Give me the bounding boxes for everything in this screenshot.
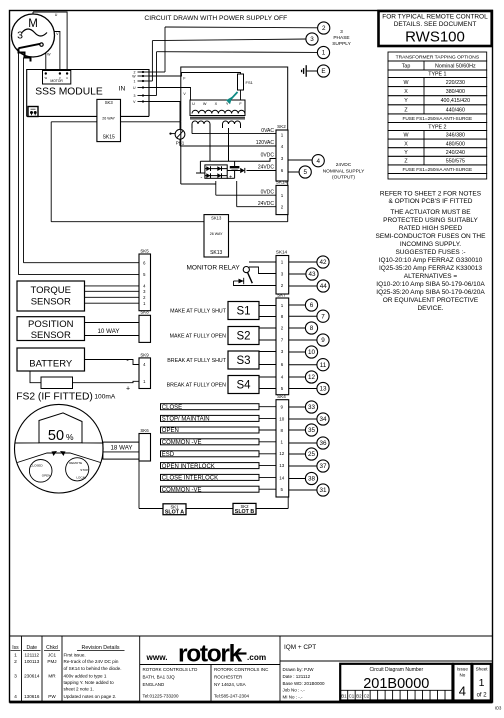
svg-text:BATTERY: BATTERY: [29, 359, 73, 370]
svg-text:Tel:585-247-2304: Tel:585-247-2304: [214, 694, 250, 699]
svg-text:SK14: SK14: [276, 250, 288, 255]
svg-text:SK15: SK15: [103, 135, 115, 141]
svg-text:35: 35: [308, 427, 316, 434]
svg-text:F: F: [183, 77, 185, 81]
svg-text:REFER TO SHEET 2 FOR NOTES: REFER TO SHEET 2 FOR NOTES: [380, 190, 482, 197]
svg-text:SENSOR: SENSOR: [31, 297, 71, 308]
svg-text:X: X: [404, 89, 408, 95]
svg-text:IN: IN: [119, 85, 126, 92]
svg-text:24VDC: 24VDC: [336, 162, 352, 168]
svg-text:sheet 2 note 1.: sheet 2 note 1.: [64, 687, 94, 692]
svg-text:TRANSFORMER TAPPING OPTIONS: TRANSFORMER TAPPING OPTIONS: [396, 54, 480, 60]
svg-text:SEMI-CONDUCTOR FUSES ON THE: SEMI-CONDUCTOR FUSES ON THE: [376, 233, 487, 240]
svg-text:4: 4: [459, 684, 466, 699]
svg-text:FS2 (IF FITTED): FS2 (IF FITTED): [16, 391, 93, 402]
svg-text:100113: 100113: [24, 659, 39, 664]
svg-text:(OUTPUT): (OUTPUT): [332, 175, 355, 181]
svg-text:FS1: FS1: [246, 80, 254, 85]
svg-text:IQ25-35:20 Amp FERRAZ K330013: IQ25-35:20 Amp FERRAZ K330013: [379, 265, 482, 272]
svg-text:Y: Y: [404, 98, 408, 104]
svg-text:+: +: [126, 386, 130, 393]
svg-text:M: M: [28, 18, 38, 30]
svg-text:400v added to type 1: 400v added to type 1: [64, 674, 107, 679]
svg-text:BREAK AT FULLY SHUT: BREAK AT FULLY SHUT: [167, 358, 227, 364]
svg-text:Tap: Tap: [402, 63, 411, 69]
svg-text:PHASE: PHASE: [333, 35, 349, 41]
svg-text:34: 34: [319, 416, 327, 423]
svg-text:S4: S4: [236, 380, 251, 392]
svg-text:REMOTE: REMOTE: [69, 461, 82, 465]
svg-text:C2: C2: [364, 693, 370, 698]
svg-text:SUGGESTED FUSES :-: SUGGESTED FUSES :-: [395, 249, 465, 256]
svg-text:FOR TYPICAL REMOTE CONTROL: FOR TYPICAL REMOTE CONTROL: [382, 14, 488, 21]
svg-text:SK9: SK9: [140, 352, 149, 357]
svg-text:X: X: [215, 102, 218, 106]
svg-text:X: X: [404, 141, 408, 147]
svg-text:W: W: [203, 102, 207, 106]
svg-text:FUSE FS1=250mA ANTI-SURGE: FUSE FS1=250mA ANTI-SURGE: [403, 116, 473, 121]
svg-text:346/380: 346/380: [446, 133, 465, 139]
svg-text:SK1: SK1: [170, 504, 179, 509]
svg-text:550/575: 550/575: [446, 159, 465, 165]
svg-text:E: E: [321, 68, 325, 75]
svg-text:SK5: SK5: [140, 248, 149, 253]
svg-text:7: 7: [321, 313, 325, 320]
svg-text:SLOT A: SLOT A: [165, 510, 184, 516]
svg-text:SK2: SK2: [240, 504, 249, 509]
svg-text:CLOSED: CLOSED: [30, 464, 43, 468]
svg-text:2: 2: [322, 25, 326, 32]
svg-text:+: +: [229, 175, 232, 181]
svg-text:U: U: [66, 76, 68, 80]
svg-text:Base WD: 201B0000: Base WD: 201B0000: [283, 681, 326, 686]
svg-text:TYPE 1: TYPE 1: [428, 72, 446, 78]
svg-text:220/230: 220/230: [446, 80, 465, 86]
svg-text:%: %: [66, 432, 74, 442]
svg-text:Date: Date: [27, 645, 38, 651]
svg-text:3: 3: [310, 36, 314, 43]
svg-text:Circuit Diagram Number: Circuit Diagram Number: [369, 667, 423, 673]
svg-text:120VAC: 120VAC: [256, 140, 275, 146]
svg-text:10: 10: [279, 417, 285, 422]
svg-text:25: 25: [308, 451, 316, 458]
svg-text:SK6: SK6: [140, 428, 149, 433]
svg-text:RWS100: RWS100: [405, 29, 465, 46]
svg-text:SUPPLY: SUPPLY: [332, 41, 351, 47]
svg-text:MR: MR: [48, 674, 56, 679]
svg-text:MAKE AT FULLY SHUT: MAKE AT FULLY SHUT: [170, 309, 227, 315]
svg-text:COMMON -VE: COMMON -VE: [162, 440, 202, 446]
svg-text:FUSE FS1=250mA ANTI-SURGE: FUSE FS1=250mA ANTI-SURGE: [403, 167, 473, 172]
svg-text:SK8: SK8: [140, 310, 149, 315]
svg-text:33: 33: [308, 404, 316, 411]
svg-text:Chkd: Chkd: [46, 645, 58, 651]
svg-text:SK13: SK13: [210, 250, 222, 256]
svg-text:380/400: 380/400: [446, 89, 465, 95]
svg-text:TYPE 2: TYPE 2: [428, 124, 446, 130]
svg-text:W: W: [404, 133, 409, 139]
svg-text:IQ25-35:20 Amp SIBA 50-179-06/: IQ25-35:20 Amp SIBA 50-179-06/20A: [376, 289, 485, 296]
svg-text:W: W: [404, 80, 409, 86]
svg-text:Job No : -.-: Job No : -.-: [283, 688, 306, 693]
svg-text:TORQUE: TORQUE: [31, 285, 71, 296]
svg-text:SK13: SK13: [211, 215, 222, 220]
svg-text:13: 13: [319, 386, 327, 393]
svg-text:6: 6: [310, 302, 314, 309]
svg-text:0VDC: 0VDC: [261, 153, 275, 159]
svg-text:480/500: 480/500: [446, 141, 465, 147]
svg-text:C1: C1: [349, 693, 355, 698]
svg-text:24VDC: 24VDC: [258, 201, 275, 207]
svg-text:43: 43: [308, 271, 316, 278]
svg-text:OR EQUIVALENT PROTECTIVE: OR EQUIVALENT PROTECTIVE: [383, 297, 479, 304]
svg-text:B2: B2: [356, 693, 362, 698]
svg-text:1: 1: [14, 653, 17, 659]
svg-text:MOTOR: MOTOR: [50, 79, 63, 83]
svg-text:U: U: [55, 13, 58, 17]
svg-text:CIRCUIT DRAWN WITH POWER SUPPL: CIRCUIT DRAWN WITH POWER SUPPLY OFF: [144, 15, 287, 22]
svg-text:44: 44: [320, 283, 328, 290]
svg-text:31: 31: [319, 487, 327, 494]
svg-text:First issue.: First issue.: [64, 653, 86, 658]
svg-text:INCOMING SUPPLY.: INCOMING SUPPLY.: [400, 241, 461, 248]
svg-text:50: 50: [48, 428, 64, 444]
svg-text:2: 2: [14, 659, 17, 665]
svg-text:12: 12: [308, 374, 316, 381]
svg-text:4: 4: [14, 694, 17, 700]
svg-text:SK14: SK14: [276, 180, 288, 185]
svg-text:1: 1: [134, 80, 136, 84]
svg-text:SK2: SK2: [277, 124, 286, 129]
svg-text:SK4: SK4: [277, 394, 286, 399]
svg-text:Sheet: Sheet: [476, 667, 489, 672]
svg-text:1: 1: [479, 677, 485, 689]
svg-text:NOMINAL SUPPLY: NOMINAL SUPPLY: [323, 168, 365, 174]
svg-text:Issue: Issue: [457, 667, 468, 672]
svg-text:201B0000: 201B0000: [363, 676, 429, 692]
svg-text:S2: S2: [236, 331, 250, 343]
svg-text:11: 11: [320, 362, 327, 369]
svg-text:Nominal 50/60Hz: Nominal 50/60Hz: [435, 63, 476, 69]
svg-text:230614: 230614: [24, 674, 40, 679]
svg-text:U: U: [192, 102, 195, 106]
svg-text:STOP: STOP: [80, 468, 88, 472]
svg-text:BREAK AT FULLY OPEN: BREAK AT FULLY OPEN: [167, 383, 227, 389]
svg-text:CLOSE INTERLOCK: CLOSE INTERLOCK: [162, 476, 218, 482]
svg-text:ROTORK CONTROLS LTD: ROTORK CONTROLS LTD: [143, 667, 199, 672]
svg-text:OPEN INTERLOCK: OPEN INTERLOCK: [162, 464, 215, 470]
svg-text:www.: www.: [146, 653, 168, 662]
svg-text:DETAILS. SEE DOCUMENT: DETAILS. SEE DOCUMENT: [394, 21, 477, 28]
svg-text:of 2: of 2: [477, 693, 488, 699]
svg-text:400,415/420: 400,415/420: [441, 98, 471, 104]
svg-text:THE ACTUATOR MUST BE: THE ACTUATOR MUST BE: [390, 209, 471, 216]
svg-text:5: 5: [303, 169, 307, 176]
svg-text:IQ10-20:10 Amp SIBA 50-179-06/: IQ10-20:10 Amp SIBA 50-179-06/10A: [376, 281, 485, 288]
svg-text:24VDC: 24VDC: [258, 165, 275, 171]
svg-text:Updated notes on page 2.: Updated notes on page 2.: [64, 694, 117, 699]
svg-text:9: 9: [321, 337, 325, 344]
svg-text:OPEN: OPEN: [162, 428, 179, 434]
svg-text:12: 12: [279, 451, 285, 456]
svg-text:MONITOR RELAY: MONITOR RELAY: [186, 264, 240, 271]
svg-text:ESD: ESD: [162, 452, 175, 458]
svg-text:PROTECTED USING SUITABLY: PROTECTED USING SUITABLY: [383, 217, 478, 224]
svg-text:MAKE AT FULLY OPEN: MAKE AT FULLY OPEN: [170, 334, 227, 340]
svg-text:ALTERNATIVES =: ALTERNATIVES =: [404, 273, 458, 280]
svg-text:3: 3: [340, 29, 343, 35]
svg-text:10: 10: [308, 349, 316, 356]
svg-text:OPEN: OPEN: [42, 474, 51, 478]
svg-text:SENSOR: SENSOR: [31, 330, 71, 341]
svg-text:0VDC: 0VDC: [261, 189, 275, 195]
svg-text:BATH, BA1 3JQ: BATH, BA1 3JQ: [143, 675, 176, 680]
svg-text:PMJ: PMJ: [47, 659, 56, 664]
svg-text:121112: 121112: [24, 653, 39, 658]
svg-text:3: 3: [134, 94, 136, 98]
svg-text:IO3: IO3: [495, 706, 502, 711]
svg-text:26 WAY: 26 WAY: [210, 232, 223, 236]
svg-text:4: 4: [316, 158, 320, 165]
svg-text:1: 1: [322, 50, 326, 57]
svg-text:240/240: 240/240: [446, 150, 465, 156]
svg-text:JC1: JC1: [48, 653, 57, 658]
svg-text:38: 38: [308, 476, 316, 483]
svg-text:tapping Y. Note added to: tapping Y. Note added to: [64, 680, 115, 685]
svg-text:3: 3: [14, 674, 17, 680]
svg-text:SK3: SK3: [105, 100, 114, 105]
svg-text:10 WAY: 10 WAY: [97, 328, 119, 335]
svg-text:SK7: SK7: [277, 292, 286, 297]
svg-text:W: W: [47, 52, 51, 56]
svg-text:ENGLAND: ENGLAND: [143, 682, 166, 687]
svg-text:PW: PW: [48, 694, 56, 699]
svg-text:No: No: [459, 672, 465, 677]
svg-text:ROTORK CONTROLS INC: ROTORK CONTROLS INC: [214, 667, 269, 672]
svg-text:.com: .com: [247, 653, 266, 662]
svg-text:Drawn by: PJW: Drawn by: PJW: [283, 667, 315, 672]
svg-text:18 WAY: 18 WAY: [110, 445, 132, 452]
svg-text:42: 42: [319, 259, 327, 266]
svg-text:37: 37: [319, 463, 327, 470]
svg-text:26 WAY: 26 WAY: [102, 117, 115, 121]
svg-text:IQ10-20:10 Amp FERRAZ G330010: IQ10-20:10 Amp FERRAZ G330010: [379, 257, 483, 264]
svg-text:ROCHESTER: ROCHESTER: [214, 675, 243, 680]
svg-text:14: 14: [279, 476, 285, 481]
svg-text:Iss: Iss: [12, 645, 19, 651]
svg-text:LOCAL: LOCAL: [76, 475, 86, 479]
svg-text:Date : 121112: Date : 121112: [283, 674, 311, 679]
svg-text:COMMON -VE: COMMON -VE: [162, 487, 202, 493]
svg-text:DEVICE.: DEVICE.: [417, 305, 443, 312]
svg-text:Re-track of the 24V DC pin: Re-track of the 24V DC pin: [64, 659, 119, 664]
svg-text:100mA: 100mA: [94, 393, 115, 400]
svg-text:S1: S1: [236, 306, 250, 318]
svg-text:13: 13: [279, 463, 285, 468]
svg-text:Tel:01225-733200: Tel:01225-733200: [143, 694, 180, 699]
svg-text:STOP/ MAINTAIN: STOP/ MAINTAIN: [162, 417, 210, 423]
svg-text:IQM + CPT: IQM + CPT: [284, 644, 316, 651]
svg-text:SSS MODULE: SSS MODULE: [35, 87, 103, 98]
svg-text:NY 14624, USA: NY 14624, USA: [214, 682, 246, 687]
svg-text:0VAC: 0VAC: [261, 128, 274, 134]
svg-text:& OPTION PCB'S IF FITTED: & OPTION PCB'S IF FITTED: [389, 198, 473, 205]
svg-text:Y: Y: [404, 150, 408, 156]
svg-text:SLOT B: SLOT B: [235, 509, 255, 515]
svg-text:36: 36: [319, 440, 327, 447]
svg-text:130616: 130616: [24, 694, 40, 699]
svg-text:8: 8: [310, 325, 314, 332]
svg-text:CLOSE: CLOSE: [162, 405, 182, 411]
svg-text:Revision Details: Revision Details: [82, 645, 120, 651]
svg-text:POSITION: POSITION: [28, 319, 74, 330]
svg-text:3: 3: [17, 30, 23, 42]
svg-text:of SK14 to behind the diode.: of SK14 to behind the diode.: [64, 666, 122, 671]
svg-text:V: V: [59, 76, 61, 80]
svg-text:MI No : -.-: MI No : -.-: [283, 695, 304, 700]
svg-text:-: -: [200, 175, 202, 181]
svg-text:S3: S3: [236, 355, 250, 367]
svg-text:RATED HIGH SPEED: RATED HIGH SPEED: [399, 225, 463, 232]
svg-text:rotork: rotork: [178, 641, 243, 668]
svg-text:B1: B1: [341, 693, 347, 698]
svg-text:440/460: 440/460: [446, 107, 465, 113]
